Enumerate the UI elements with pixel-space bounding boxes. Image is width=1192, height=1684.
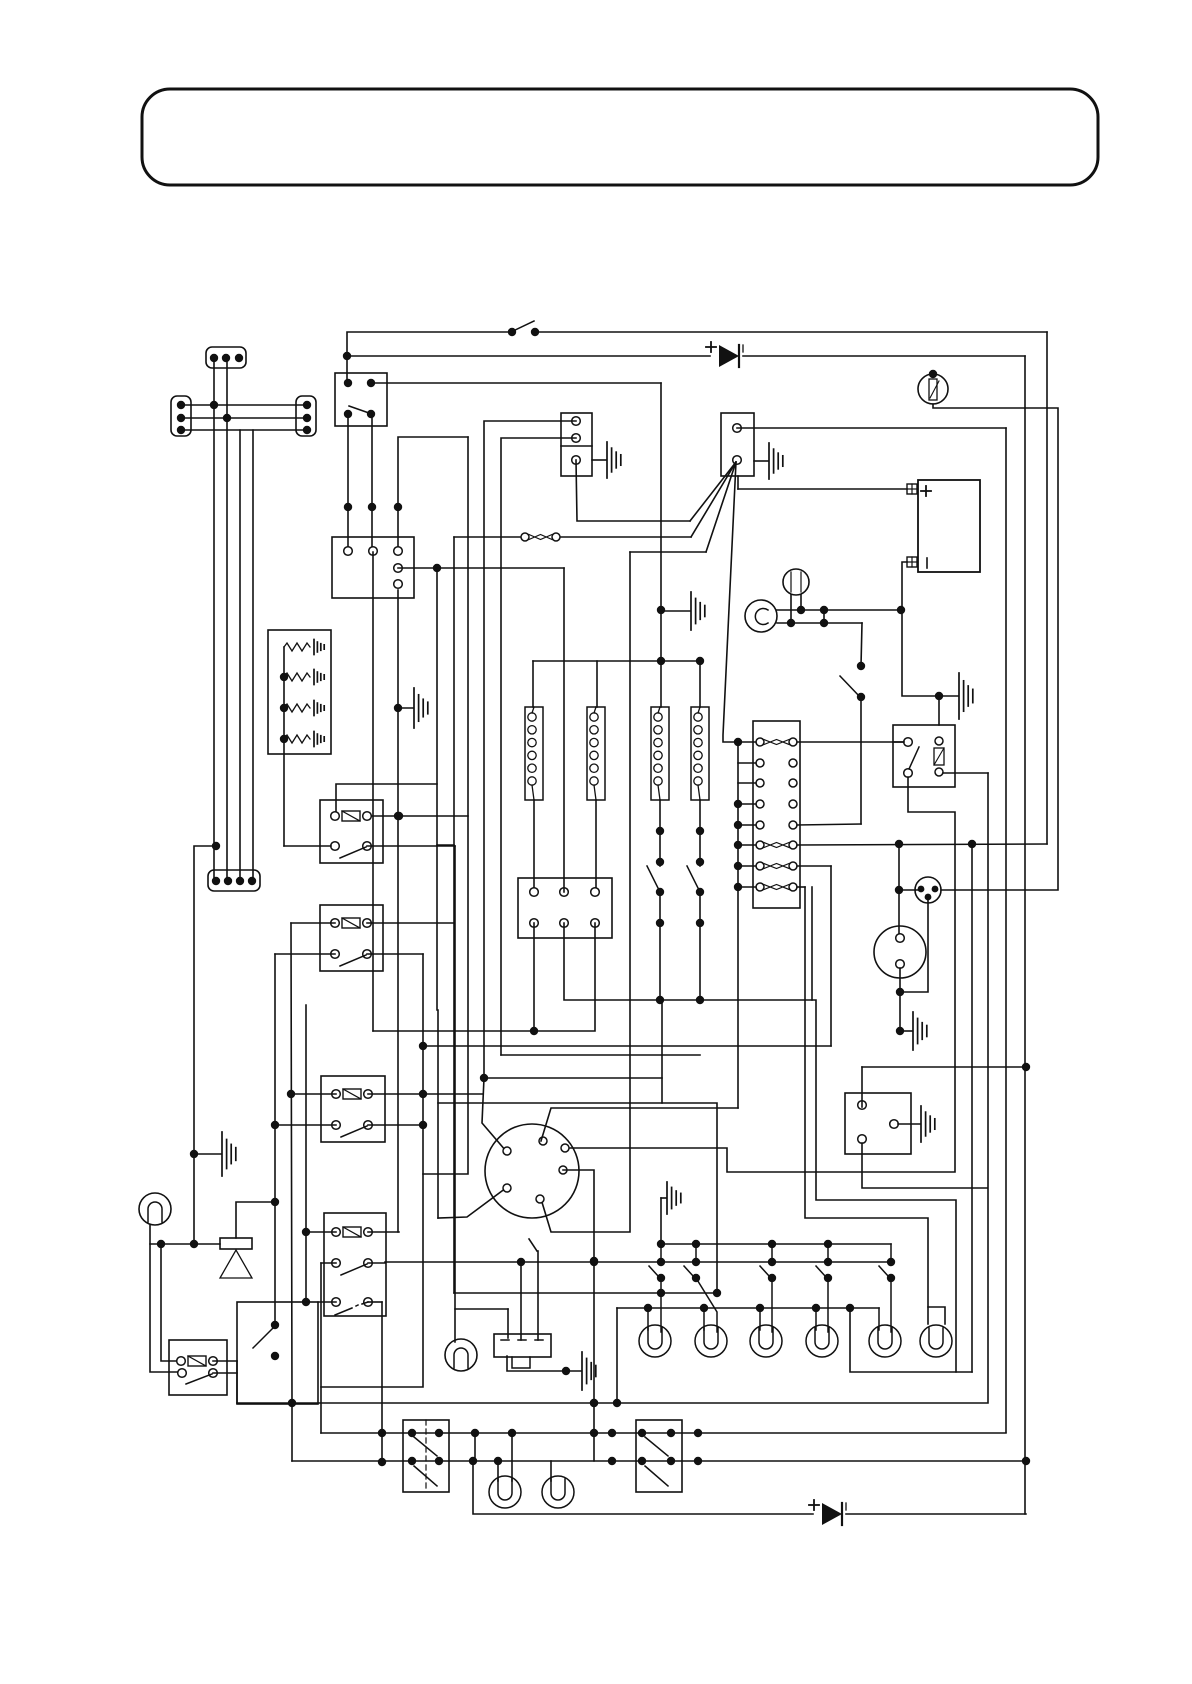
- battery: [918, 480, 980, 572]
- wire row6 right: [797, 844, 1047, 845]
- ground G9s: [581, 1352, 583, 1390]
- lamp L1: [639, 1325, 671, 1357]
- wire: [550, 1461, 552, 1481]
- wire fan F1: [690, 462, 736, 521]
- wire: [423, 1045, 831, 1047]
- bottom row 1: [321, 1432, 1006, 1434]
- fuel valve: [220, 1238, 252, 1249]
- connector CN3: [296, 396, 316, 436]
- magneto: [874, 926, 926, 978]
- wire: [899, 968, 901, 1031]
- wire: [933, 404, 1058, 890]
- wire fan F4: [723, 462, 738, 742]
- regulator box C: [561, 413, 592, 476]
- alternator box D: [721, 413, 754, 476]
- ground G3: [754, 460, 768, 462]
- wire: [484, 1077, 662, 1079]
- wire: [347, 332, 512, 383]
- wire: [367, 815, 468, 817]
- wire fan F2: [691, 462, 736, 537]
- resistor: [935, 737, 943, 745]
- label -: [926, 558, 928, 568]
- connector CN2: [171, 396, 191, 436]
- wire: [850, 1308, 972, 1372]
- wire: [743, 355, 1025, 357]
- wire bus: [213, 358, 215, 881]
- lamp L2: [695, 1325, 727, 1357]
- wire: [438, 1103, 717, 1293]
- terminal: [530, 888, 539, 897]
- horn: [745, 600, 777, 632]
- lamp socket: [928, 1307, 945, 1324]
- ignition switch box B: [332, 537, 414, 598]
- wire: [507, 1356, 581, 1371]
- wire: [541, 1108, 738, 1141]
- wire: [738, 741, 756, 743]
- coil W1: [525, 707, 543, 800]
- node: [190, 1240, 198, 1248]
- wire: [564, 923, 956, 1372]
- wire: [900, 897, 928, 992]
- wire left chain: [737, 742, 739, 1108]
- wire: [397, 590, 399, 1232]
- node: [657, 606, 665, 614]
- wire: [291, 922, 335, 924]
- wire: [398, 437, 468, 551]
- wire: [371, 382, 661, 384]
- contact: [344, 379, 352, 387]
- ground G5: [958, 673, 960, 719]
- hour meter: [139, 1193, 171, 1225]
- node: [190, 1150, 198, 1158]
- terminal: [733, 424, 742, 433]
- wire: [454, 1292, 717, 1294]
- lamp drops: [647, 1308, 649, 1330]
- wire: [368, 1231, 399, 1233]
- starter motor: [445, 1339, 477, 1371]
- gauge O2: [542, 1476, 574, 1508]
- starter solenoid: [494, 1334, 551, 1357]
- wire: [899, 889, 921, 891]
- label +: [921, 490, 931, 492]
- wire: [368, 1262, 385, 1264]
- wire row5 right: [797, 824, 861, 825]
- wire: [533, 923, 535, 1031]
- wire: [790, 595, 792, 623]
- wire: [846, 1513, 1026, 1515]
- wire row8 right: [797, 886, 805, 888]
- wire: [150, 1243, 220, 1245]
- wire: [943, 772, 988, 774]
- wire: [275, 953, 335, 955]
- node: [210, 401, 218, 409]
- diode line: [473, 1461, 813, 1514]
- wire: [1046, 332, 1048, 844]
- wire: [368, 1093, 483, 1095]
- wire: [563, 568, 565, 892]
- terminal: [572, 417, 581, 426]
- wire: [284, 845, 331, 847]
- wire: [453, 537, 455, 1293]
- wire: [181, 417, 307, 419]
- node: [480, 1074, 488, 1082]
- connector CN1: [206, 347, 246, 368]
- wire: [455, 1308, 508, 1310]
- wire: [482, 421, 576, 1151]
- wire: [318, 1301, 336, 1303]
- switch SW1: [508, 328, 516, 336]
- glow plug resistors: [284, 643, 310, 651]
- switch box N1: [403, 1420, 449, 1492]
- wire: [371, 414, 373, 551]
- wire: [737, 427, 1006, 429]
- title box: [142, 89, 1098, 185]
- wire: [213, 1360, 237, 1362]
- wire: [306, 1231, 336, 1233]
- connector CN4: [208, 870, 260, 891]
- wire: [372, 552, 374, 1031]
- wire: [971, 844, 973, 1372]
- coil W2: [587, 707, 605, 800]
- contact: [344, 410, 352, 418]
- relay box R5: [169, 1340, 227, 1395]
- contact: [331, 842, 340, 851]
- safety relay box E: [893, 725, 955, 787]
- wire: [501, 438, 576, 1055]
- switch blade: [529, 1239, 537, 1251]
- wire: [373, 923, 595, 1031]
- lamp switches: [660, 1244, 662, 1262]
- wire: [862, 1066, 1026, 1068]
- switch box N2: [636, 1420, 682, 1492]
- wire: [533, 660, 701, 662]
- wire: [423, 437, 468, 1174]
- fuse block box: [753, 721, 800, 908]
- contact: [904, 738, 913, 747]
- ground GL: [194, 1153, 221, 1155]
- lamp bus upper: [661, 1243, 891, 1245]
- node: [657, 657, 665, 665]
- wire: [861, 1067, 863, 1107]
- terminal: [858, 1101, 867, 1110]
- lamp L4: [806, 1325, 838, 1357]
- relay box R2: [320, 905, 383, 971]
- bottom row 2: [292, 1460, 1026, 1462]
- wire: [565, 777, 955, 1172]
- lamp bus lower: [617, 1307, 879, 1309]
- switch box A: [335, 373, 387, 426]
- fuse: [331, 812, 340, 821]
- wire: [150, 1225, 182, 1372]
- relay box R3: [321, 1076, 385, 1142]
- contact: [332, 1121, 341, 1130]
- coil3 chain: [659, 800, 661, 866]
- ground G8: [661, 1197, 666, 1199]
- switch SW2: [861, 623, 862, 666]
- wire battery+: [738, 488, 907, 490]
- battery terminal -: [907, 557, 917, 567]
- coil W3: [651, 707, 669, 800]
- wire: [862, 1143, 987, 1188]
- wire fan F3: [706, 462, 736, 552]
- resistor block K: [268, 630, 331, 754]
- contact: [271, 1321, 279, 1329]
- diode D1: [719, 345, 739, 367]
- wire: [533, 800, 535, 892]
- wire: [511, 1433, 513, 1481]
- fuse: [177, 1357, 186, 1366]
- gauge O1: [489, 1476, 521, 1508]
- contact: [331, 950, 340, 959]
- wire: [236, 1202, 275, 1238]
- wire: [616, 1308, 618, 1403]
- wire long bottom: [237, 773, 988, 1403]
- indicator lamp: [783, 569, 809, 595]
- wire: [661, 1000, 663, 1103]
- wire: [438, 1188, 506, 1218]
- wire: [563, 1170, 594, 1461]
- wire: [938, 696, 940, 725]
- node: [271, 1198, 279, 1206]
- wire battery-: [902, 562, 958, 696]
- node: [343, 352, 351, 360]
- wire: [660, 383, 662, 661]
- terminal: [503, 1147, 511, 1155]
- ground G1: [398, 707, 413, 709]
- wire: [212, 842, 220, 850]
- wire: [368, 1124, 423, 1126]
- diode D2: [822, 1503, 842, 1525]
- wire: [367, 953, 423, 955]
- wire: [367, 922, 454, 924]
- wire: [520, 1262, 522, 1340]
- wire: [437, 568, 454, 845]
- wire row1 right: [797, 741, 904, 743]
- ground G2: [592, 459, 606, 461]
- battery terminal +: [907, 484, 917, 494]
- ground G4: [661, 610, 690, 612]
- wire: [777, 609, 901, 611]
- wire: [437, 845, 438, 1218]
- wire: [275, 1124, 336, 1126]
- switch box L: [237, 1302, 318, 1404]
- wire: [898, 844, 900, 938]
- terminal: [344, 547, 353, 556]
- wire: [181, 429, 307, 431]
- fuses: [756, 738, 764, 746]
- wire: [893, 741, 904, 743]
- wire: [777, 622, 862, 624]
- wire: [595, 800, 597, 892]
- wire: [347, 355, 710, 357]
- wire row7 right: [797, 865, 831, 867]
- regulator box I: [845, 1093, 911, 1154]
- wire: [501, 1054, 700, 1056]
- wire: [576, 460, 690, 521]
- fuse: [332, 1090, 341, 1099]
- wire: [181, 404, 307, 406]
- junction block: [518, 878, 612, 938]
- wire: [368, 1301, 382, 1303]
- fuse: [332, 1228, 341, 1237]
- lamp L6: [920, 1325, 952, 1357]
- fuse: [331, 919, 340, 928]
- contact: [178, 1369, 187, 1378]
- wire: [398, 567, 564, 569]
- fuse F0: [454, 536, 520, 538]
- lamp L5: [869, 1325, 901, 1357]
- 3-pin plug: [915, 877, 941, 903]
- wire: [291, 1093, 336, 1095]
- wire: [336, 784, 437, 812]
- wire: [367, 845, 455, 847]
- contact: [332, 1298, 341, 1307]
- wire: [161, 1244, 182, 1361]
- relay box R1: [320, 800, 383, 863]
- wire: [347, 414, 349, 551]
- ground G7: [898, 1123, 920, 1125]
- coil W4: [691, 707, 709, 800]
- lamp L3: [750, 1325, 782, 1357]
- fuel gauge: [918, 374, 948, 404]
- coil4 chain: [699, 800, 701, 866]
- relay box R4: [324, 1213, 386, 1316]
- contact: [332, 1259, 341, 1268]
- ground G6: [900, 1030, 912, 1032]
- distributor: [485, 1124, 579, 1218]
- wire: [321, 1262, 336, 1264]
- lamp feed line: [385, 1261, 891, 1263]
